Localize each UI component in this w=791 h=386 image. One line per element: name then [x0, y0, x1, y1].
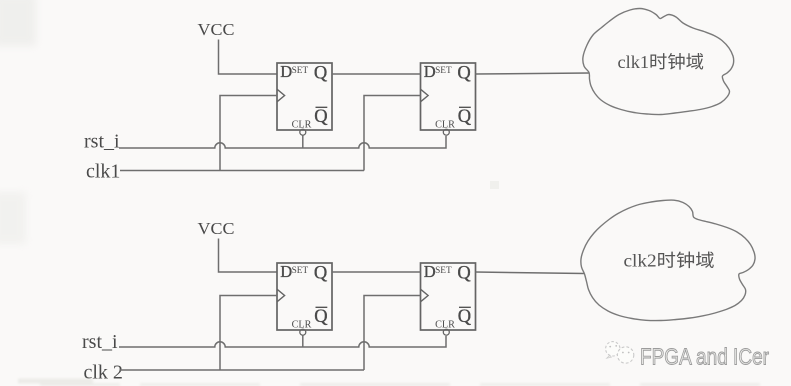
wire U2 clock from clk1 (top circuit)	[364, 96, 421, 171]
svg-text:D: D	[424, 262, 436, 281]
svg-text:D: D	[280, 262, 292, 281]
wire U3 clock from clk 2 (bottom circuit)	[220, 296, 277, 371]
svg-text:Q: Q	[314, 307, 328, 327]
U3 clock wedge	[277, 289, 285, 302]
svg-text:SET: SET	[292, 266, 309, 276]
U1 CLR bubble	[300, 129, 306, 135]
flip-flop U3	[277, 263, 332, 330]
clk2 clock-domain cloud	[581, 200, 755, 320]
scan cut-off caption strip bottom	[18, 379, 760, 386]
U4 clock wedge	[421, 289, 429, 302]
wire clk 2 (bottom circuit)	[120, 369, 364, 371]
watermark logo front bubble	[617, 347, 633, 363]
svg-text:Q: Q	[457, 264, 471, 284]
wire U1 clock from clk1 (top circuit)	[220, 96, 277, 171]
flip-flop U4	[421, 263, 476, 330]
scan smudge left-mid	[0, 192, 26, 244]
wire U3 CLR stub (bottom circuit)	[302, 335, 304, 347]
svg-text:Q: Q	[458, 307, 472, 327]
wire U4 Q to clk2 domain cloud	[476, 272, 585, 274]
svg-text:FPGA and ICer: FPGA and ICer	[640, 344, 769, 370]
U4 pin label Qbar overbar	[459, 306, 471, 308]
wire U4 clock from clk 2 (bottom circuit)	[364, 296, 421, 371]
wire rst_i with hops (top circuit)	[119, 136, 446, 148]
svg-text:SET: SET	[292, 66, 309, 76]
svg-text:CLR: CLR	[435, 319, 455, 330]
wire U3 Q to U4 D (bottom circuit)	[332, 271, 421, 273]
svg-text:VCC: VCC	[198, 20, 235, 39]
flip-flop U1	[277, 63, 332, 130]
svg-text:CLR: CLR	[292, 119, 312, 130]
svg-text:CLR: CLR	[292, 319, 312, 330]
scan smudge top-left	[0, 0, 36, 46]
svg-text:Q: Q	[457, 64, 471, 84]
svg-text:D: D	[280, 62, 292, 81]
svg-text:clk1: clk1	[86, 161, 120, 183]
wire U2 Q to clk1 domain cloud	[476, 73, 590, 74]
svg-text:VCC: VCC	[198, 219, 235, 238]
scan speck mid	[490, 181, 499, 189]
svg-text:Q: Q	[314, 107, 328, 127]
wire U1 CLR stub (top circuit)	[302, 135, 304, 148]
svg-text:Q: Q	[458, 107, 472, 127]
U1 pin label Qbar overbar	[316, 106, 328, 108]
svg-text:Q: Q	[314, 64, 328, 84]
svg-text:rst_i: rst_i	[82, 331, 118, 353]
watermark logo back bubble	[606, 342, 620, 359]
svg-text:CLR: CLR	[435, 119, 455, 130]
clk1 clock-domain cloud	[583, 8, 734, 114]
svg-text:D: D	[424, 62, 436, 81]
wire VCC vertical (bottom circuit)	[219, 239, 278, 273]
U1 clock wedge	[277, 89, 285, 102]
svg-text:Q: Q	[314, 264, 328, 284]
flip-flop U2	[421, 63, 476, 130]
U3 pin label Qbar overbar	[316, 306, 328, 308]
wire rst_i with hops (bottom circuit)	[119, 336, 446, 347]
wire U1 Q to U2 D (top circuit)	[332, 73, 421, 75]
U4 CLR bubble	[443, 329, 449, 335]
svg-text:SET: SET	[435, 266, 452, 276]
U2 clock wedge	[421, 89, 429, 102]
svg-text:clk2时钟域: clk2时钟域	[624, 251, 715, 271]
wire clk1 (top circuit)	[120, 170, 364, 172]
U2 CLR bubble	[443, 129, 449, 135]
svg-text:clk1时钟域: clk1时钟域	[618, 52, 705, 72]
U3 CLR bubble	[300, 329, 306, 335]
svg-text:SET: SET	[435, 66, 452, 76]
svg-text:rst_i: rst_i	[84, 131, 120, 153]
wire VCC vertical (top circuit)	[219, 40, 278, 75]
U2 pin label Qbar overbar	[459, 106, 471, 108]
